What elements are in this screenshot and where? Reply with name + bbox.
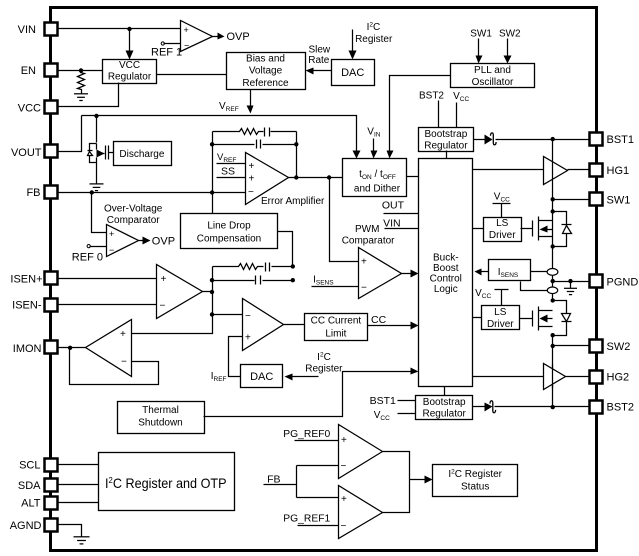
svg-text:VCC: VCC	[475, 288, 491, 300]
svg-text:I2C Register: I2C Register	[448, 468, 502, 480]
diode D-Q2 body diode of Q2	[553, 301, 572, 336]
svg-text:DAC: DAC	[341, 67, 364, 79]
ground below discharge FET	[90, 184, 104, 191]
wire bootstrap (top) to BST1 pin	[496, 139, 590, 141]
wire Thermal Shutdown to Buck-Boost logic (I2C Register arrow)	[204, 372, 412, 417]
svg-text:VCC: VCC	[374, 410, 390, 422]
op-amp U-PG1 power-good comparator 0	[339, 425, 383, 479]
svg-text:REF 0: REF 0	[72, 252, 103, 264]
pin VOUT	[11, 145, 58, 160]
pin SDA	[18, 479, 58, 492]
wire ISEN feedback left vertical to IMON + input	[132, 267, 213, 334]
svg-text:VREF: VREF	[219, 101, 239, 113]
wire sense amp output	[203, 291, 213, 293]
junction IMON feedback	[68, 346, 72, 350]
wire Buck-Boost logic to Bootstrap Regulator (bottom)	[444, 387, 446, 396]
svg-text:AGND: AGND	[10, 520, 42, 532]
pin IMON	[13, 341, 58, 356]
svg-text:Line Drop: Line Drop	[207, 220, 251, 231]
junction FB/feedback network	[210, 190, 214, 194]
svg-text:Compensation: Compensation	[197, 233, 261, 244]
svg-text:HG2: HG2	[607, 372, 630, 384]
ground PGND symbol	[564, 281, 577, 295]
svg-text:Over-Voltage: Over-Voltage	[104, 204, 163, 215]
pin EN	[21, 64, 58, 78]
pin ISEN-	[12, 299, 57, 312]
block U-BBCL Buck-Boost Control Logic	[419, 159, 473, 387]
svg-text:Thermal: Thermal	[142, 405, 179, 416]
svg-text:PGND: PGND	[607, 277, 639, 289]
wire rail through HG2 driver	[552, 365, 554, 389]
ground AGND symbol	[74, 537, 90, 544]
svg-text:−: −	[184, 40, 189, 50]
svg-text:Comparator: Comparator	[107, 215, 160, 226]
wire VIN down to VCC Regulator (arrow)	[129, 29, 131, 52]
svg-text:CC Current: CC Current	[311, 316, 362, 327]
wire over-voltage comparator output arrow	[139, 240, 144, 242]
junction Q1 source	[551, 244, 555, 248]
svg-text:−: −	[361, 283, 367, 294]
op-amp U-OVP1 VIN over-voltage comparator	[181, 21, 213, 52]
wire switch rail 2 (Q2 to SW2 to BST2)	[552, 336, 554, 408]
svg-text:PG_REF0: PG_REF0	[283, 429, 330, 440]
block U-BSR2 Bootstrap Regulator (bottom)	[416, 396, 473, 420]
pin ISEN+	[10, 272, 57, 286]
wire OVP comparator output arrow	[213, 36, 219, 38]
junction Q1 drain	[551, 209, 555, 213]
wire VCC Regulator to Bias block	[157, 74, 227, 76]
svg-text:Logic: Logic	[434, 284, 458, 295]
transistor Q2 low-side FET 2	[533, 307, 553, 331]
wire OUT stub into Buck-Boost logic	[384, 213, 419, 215]
svg-text:+: +	[361, 257, 367, 268]
block U-DAC1 DAC (slew rate)	[332, 60, 375, 86]
svg-text:−: −	[248, 187, 254, 198]
wire VIN pin to OVP comparator + input	[58, 28, 181, 30]
svg-text:+: +	[109, 229, 114, 239]
diode D-BST2 bootstrap diode (bottom)	[473, 406, 485, 408]
svg-text:OVP: OVP	[152, 236, 175, 248]
wire VOUT rail to tON/tOFF (arrow down)	[82, 116, 357, 152]
wire PGND junction to PGND pin	[553, 281, 590, 283]
svg-text:Status: Status	[461, 481, 489, 492]
block U-VCCREG VCC Regulator	[103, 60, 157, 84]
block U-STAT I2C Register Status	[433, 465, 518, 497]
wire VCC into Bootstrap Regulator top	[456, 103, 458, 128]
wire ISENS block bottom to lower sense tap	[521, 282, 549, 291]
wire VOUT pin up to VOUT rail	[58, 116, 82, 152]
pin PGND	[590, 275, 639, 289]
svg-text:VCC: VCC	[18, 103, 41, 115]
junction PGND ground stub	[568, 279, 572, 283]
wire DAC to Bias block (slew rate arrow)	[312, 70, 332, 72]
block U-LSD2 LS Driver (low side 2)	[482, 306, 520, 330]
wire SW2 arrow into PLL	[507, 39, 509, 56]
wire IMON buffer feedback loop	[70, 348, 159, 385]
svg-text:Buck-: Buck-	[433, 252, 459, 263]
wire ALT pin to I2C block	[58, 502, 99, 504]
wire ISENS block to Buck-Boost logic (arrow left)	[481, 271, 489, 273]
wire PG output to I2C Register Status (arrow)	[410, 479, 427, 481]
block U-LSD1 LS Driver (high side 1)	[484, 218, 522, 242]
svg-text:REF 1: REF 1	[151, 47, 182, 59]
block U-DAC2 DAC (IREF)	[241, 365, 283, 388]
wire AGND pin to ground	[58, 525, 82, 537]
svg-text:Slew: Slew	[308, 45, 330, 56]
svg-text:Boost: Boost	[433, 263, 459, 274]
wire Line Drop Compensation output to ISEN feedback	[278, 232, 293, 267]
svg-text:I2C: I2C	[317, 351, 331, 363]
wire EN pin to VCC Regulator	[58, 70, 103, 72]
wire switch rail through sense taps (SW1 FET source to PGND to Q2)	[552, 247, 554, 301]
svg-text:SCL: SCL	[19, 460, 40, 472]
svg-text:+: +	[249, 173, 255, 184]
wire BST1 stub into Bootstrap Regulator (bottom)	[398, 400, 416, 402]
svg-text:SW2: SW2	[607, 341, 631, 353]
junction CC amp - input	[210, 312, 214, 316]
svg-text:−: −	[109, 245, 114, 255]
svg-text:EN: EN	[21, 65, 36, 77]
wire PWM comparator output to Buck-Boost logic (arrow)	[402, 273, 412, 275]
svg-text:and Dither: and Dither	[354, 183, 401, 194]
junction discharge FET drain on rail	[94, 114, 98, 118]
pin VCC	[18, 101, 58, 115]
junction BST1/high-side rail	[551, 137, 555, 141]
wire Buck-Boost logic to HG2 driver	[473, 376, 544, 378]
svg-text:FB: FB	[267, 473, 280, 485]
junction BST2/switch rail	[551, 405, 555, 409]
pin AGND	[10, 519, 58, 533]
op-amp U-PG2 power-good comparator 1	[339, 486, 383, 539]
svg-text:OVP: OVP	[227, 31, 250, 43]
pin SW2	[590, 340, 631, 353]
svg-text:Limit: Limit	[325, 328, 346, 339]
svg-text:BST1: BST1	[607, 134, 635, 146]
pin VIN	[18, 23, 58, 36]
wire VREF stub into error amp	[217, 163, 246, 165]
svg-text:PG_REF1: PG_REF1	[283, 513, 330, 524]
block U-THERM Thermal Shutdown	[118, 402, 205, 434]
svg-text:Regulator: Regulator	[108, 72, 152, 83]
svg-text:Bootstrap: Bootstrap	[423, 397, 466, 408]
ground below EN resistor	[74, 94, 88, 101]
wire PG_REF1 stub into PG comparator 1 - input	[298, 525, 339, 527]
wire SW1 junction to SW1 pin	[553, 199, 590, 201]
pin ALT	[21, 497, 57, 510]
op-amp U-OVC Over-Voltage Comparator	[107, 225, 139, 257]
svg-text:−: −	[245, 311, 251, 322]
svg-text:I2C: I2C	[367, 22, 381, 33]
wire REF 1 stub into OVP comparator - input	[164, 43, 181, 45]
junction SW1	[551, 197, 555, 201]
op-amp U-IMON IMON buffer (points left)	[86, 320, 132, 377]
junction EN/resistor	[79, 68, 83, 72]
block U-DIS Discharge	[114, 142, 172, 166]
capacitor C-FB4 row	[213, 280, 293, 282]
wire FB down to over-voltage comparator + input	[92, 193, 107, 233]
op-amp U-CCA CC limit amplifier	[243, 299, 284, 351]
svg-text:VCC: VCC	[453, 91, 469, 103]
junction sense amp output	[210, 290, 214, 294]
wire error amp output down to PWM comparator + input	[330, 178, 359, 262]
wire REF 0 stub into over-voltage comparator - input	[90, 246, 107, 248]
pin HG1	[590, 164, 630, 177]
junction Q2 source	[551, 333, 555, 337]
transistor Q-DIS discharge FET	[88, 116, 114, 184]
svg-text:ALT: ALT	[21, 498, 41, 510]
junction Q2 drain	[551, 298, 555, 302]
block U-ISNS ISENS sense block	[489, 260, 531, 281]
svg-text:Bootstrap: Bootstrap	[424, 129, 467, 140]
wire to CC amp - input	[213, 314, 243, 316]
block U-CCL CC Current Limit	[305, 314, 368, 341]
block U-PLL PLL and Oscillator	[451, 64, 535, 88]
pin FB	[26, 186, 57, 200]
wire BST2 into Bootstrap Regulator top	[438, 101, 440, 128]
wire VCC tee into LS Driver 2	[495, 290, 509, 306]
wire VIN stub arrow into tON/tOFF	[373, 139, 375, 152]
op-amp U-EA Error Amplifier	[246, 153, 289, 205]
svg-text:VIN: VIN	[18, 24, 36, 36]
svg-text:Driver: Driver	[487, 319, 514, 330]
svg-text:ISEN+: ISEN+	[10, 273, 42, 285]
wire PG comparator outputs joined	[383, 452, 410, 513]
svg-text:+: +	[249, 161, 255, 172]
svg-text:ISENS: ISENS	[313, 274, 334, 286]
wire SDA pin to I2C block	[58, 484, 99, 486]
wire IREF from DAC up to CC amp + input	[229, 337, 243, 377]
wire SW1 arrow into PLL	[478, 39, 480, 56]
svg-text:SDA: SDA	[18, 480, 41, 492]
wire LS Driver 1 to Q1 gate	[521, 228, 533, 230]
block U-LDC Line Drop Compensation	[181, 214, 278, 249]
resistor R-FB3 + capacitor C-FB3 sense feedback row	[213, 264, 293, 270]
pin BST1	[590, 133, 635, 147]
wire switch-node vertical rail 1 (BST1 to SW1 to FET)	[552, 140, 554, 247]
svg-text:DAC: DAC	[250, 371, 273, 383]
capacitor C-FB2 row	[213, 144, 297, 146]
svg-text:−: −	[160, 301, 166, 312]
junction error amp output/PWM comparator	[327, 175, 331, 179]
wire SS stub into error amp	[217, 177, 246, 179]
svg-text:ISEN-: ISEN-	[12, 300, 42, 312]
wire FB into both PG comparators	[264, 466, 339, 498]
svg-text:FB: FB	[26, 187, 40, 199]
wire ISENS block to upper sense tap	[531, 271, 549, 273]
junction R-FB3 right	[291, 264, 295, 268]
wire error amp feedback right vertical	[296, 132, 298, 178]
pin SW1	[590, 193, 631, 207]
wire IMON pin to IMON buffer output	[58, 347, 86, 349]
svg-text:Bias and: Bias and	[246, 54, 285, 65]
wire PG_REF0 stub into PG comparator 0 + input	[295, 440, 339, 442]
wire tON/tOFF to Buck-Boost Control Logic	[407, 176, 419, 178]
junction C-FB4 right	[291, 278, 295, 282]
svg-text:PLL and: PLL and	[474, 65, 511, 76]
block U-TON tON/tOFF and Dither	[343, 159, 407, 197]
diode D-BST1 bootstrap diode (top)	[474, 139, 485, 141]
svg-text:OUT: OUT	[382, 199, 405, 211]
wire CC amp output to CC Current Limit	[284, 324, 305, 326]
svg-text:Control: Control	[430, 274, 462, 285]
svg-text:VIN: VIN	[383, 218, 401, 230]
svg-text:HG1: HG1	[607, 165, 630, 177]
pin SCL	[19, 459, 57, 472]
svg-text:Shutdown: Shutdown	[138, 418, 182, 429]
block U-BSR1 Bootstrap Regulator (top)	[419, 128, 474, 152]
svg-text:−: −	[121, 357, 127, 368]
sense tap circle (upper)	[547, 269, 558, 276]
svg-text:−: −	[341, 521, 347, 532]
op-amp U-HGD1 HG1 gate driver	[544, 157, 568, 185]
svg-text:Regulator: Regulator	[423, 409, 467, 420]
wire SW2 junction to SW2 pin	[553, 345, 590, 347]
wire I2C Register into DAC top (arrow)	[352, 30, 354, 52]
wire PLL to tON/tOFF (elbow + arrow)	[390, 76, 451, 152]
junction SW2	[551, 344, 555, 348]
svg-text:VCC: VCC	[119, 60, 140, 71]
svg-text:+: +	[341, 435, 347, 446]
svg-text:VIN: VIN	[367, 127, 380, 139]
svg-text:+: +	[120, 329, 126, 340]
svg-text:BST2: BST2	[607, 402, 635, 414]
svg-text:SW1: SW1	[607, 194, 631, 206]
wire FB pin to error amp - input	[58, 192, 246, 194]
svg-text:IMON: IMON	[13, 343, 42, 355]
svg-text:SW2: SW2	[499, 29, 521, 40]
wire ISENS stub into PWM comparator - input	[312, 286, 359, 288]
wire Buck-Boost logic to HG1 driver	[473, 169, 544, 171]
svg-text:SW1: SW1	[470, 29, 492, 40]
svg-text:VREF: VREF	[217, 152, 236, 164]
svg-text:+: +	[245, 333, 251, 344]
wire ISEN+ pin to sense amp + input	[58, 278, 157, 280]
svg-text:BST2: BST2	[419, 91, 444, 102]
op-amp U-PWM PWM Comparator	[359, 248, 402, 299]
junction FB/over-voltage comparator	[90, 190, 94, 194]
wire Buck-Boost logic to LS Driver 2	[473, 317, 482, 319]
pin BST2	[590, 401, 635, 414]
svg-text:Register: Register	[305, 363, 343, 374]
op-amp U-CSA current sense amplifier (ISEN)	[157, 265, 203, 319]
svg-text:Comparator: Comparator	[342, 236, 395, 247]
wire bootstrap (bottom) to BST2 pin	[495, 406, 590, 408]
svg-text:Rate: Rate	[308, 55, 330, 66]
wire VCC tee into LS Driver 1	[493, 204, 511, 218]
junction VIN/VCC-regulator	[127, 27, 131, 31]
block U-OTP I2C Register and OTP	[99, 453, 235, 511]
svg-text:IREF: IREF	[211, 371, 227, 383]
wire error amp output to tON/tOFF	[289, 177, 343, 179]
diode D-Q1 body diode of Q1	[553, 212, 572, 247]
transistor Q1 low-side FET 1	[533, 217, 553, 241]
junction PGND	[551, 279, 555, 283]
junction error amp output/feedback	[294, 175, 298, 179]
svg-text:VCC: VCC	[494, 192, 510, 204]
svg-text:BST1: BST1	[370, 395, 396, 407]
svg-text:Oscillator: Oscillator	[472, 77, 514, 88]
resistor R-EN pulldown on EN	[78, 71, 85, 94]
sense tap circle (lower)	[547, 287, 557, 294]
svg-text:+: +	[161, 274, 167, 285]
svg-text:CC: CC	[371, 314, 387, 326]
wire VCC stub into Bootstrap Regulator (bottom)	[398, 413, 416, 415]
wire SCL pin to I2C block	[58, 464, 99, 466]
svg-text:Reference: Reference	[242, 78, 289, 89]
op-amp U-HGD2 HG2 gate driver	[544, 364, 566, 390]
wire error amp feedback left vertical (to Line Drop Compensation)	[212, 132, 214, 214]
svg-text:Voltage: Voltage	[249, 66, 283, 77]
svg-text:Register: Register	[355, 34, 393, 45]
svg-text:SS: SS	[221, 166, 235, 178]
svg-text:Discharge: Discharge	[119, 149, 164, 160]
wire Bootstrap Regulator (top) to Buck-Boost logic	[446, 151, 448, 159]
junction C-FB2 left	[210, 142, 214, 146]
wire VIN stub into Buck-Boost logic	[385, 228, 419, 230]
wire VREF arrow from Bias block down to rail	[250, 90, 252, 107]
wire ISEN- pin to sense amp - input	[58, 304, 157, 306]
svg-text:Error Amplifier: Error Amplifier	[261, 196, 325, 207]
wire VCC pin to VCC Regulator bottom	[58, 83, 119, 107]
wire I2C Register into DAC2 (arrow left)	[291, 376, 319, 378]
wire HG1 driver to HG1 pin	[568, 169, 590, 171]
svg-text:Regulator: Regulator	[424, 141, 468, 152]
junction C-FB4 left	[210, 278, 214, 282]
svg-text:LS: LS	[494, 307, 507, 318]
capacitor C-FB1 plates	[265, 128, 270, 137]
svg-text:PWM: PWM	[355, 224, 379, 235]
svg-text:LS: LS	[496, 218, 509, 229]
resistor R-FB1 + capacitor C-FB1 feedback row	[213, 129, 297, 135]
svg-text:+: +	[184, 25, 189, 35]
svg-text:+: +	[341, 494, 347, 505]
svg-text:Driver: Driver	[489, 230, 516, 241]
wire HG2 driver to HG2 pin	[566, 376, 590, 378]
wire LS Driver 2 to Q2 gate	[520, 318, 533, 320]
block U-BIAS Bias and Voltage Reference	[227, 53, 306, 90]
wire Buck-Boost logic to LS Driver 1	[473, 228, 484, 230]
junction C-FB2 right	[294, 142, 298, 146]
svg-text:−: −	[341, 461, 347, 472]
pin HG2	[590, 371, 630, 384]
svg-text:I2C Register and OTP: I2C Register and OTP	[105, 475, 227, 491]
wire CC Current Limit to Buck-Boost logic (arrow)	[368, 325, 412, 327]
svg-text:VOUT: VOUT	[11, 147, 42, 159]
